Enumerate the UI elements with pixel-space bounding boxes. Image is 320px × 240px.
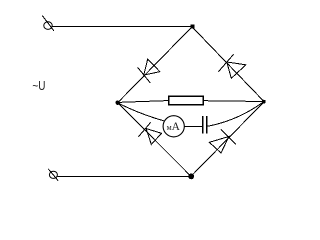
diode VD4 cathode bar [221, 130, 236, 145]
wire: milliammeter PA to capacitor C [185, 125, 202, 127]
capacitor C left plate [202, 116, 204, 134]
wire: node B to resistor R left lead [118, 101, 168, 103]
node C (right junction dot) [262, 100, 265, 103]
diode VD2 cathode bar [219, 54, 234, 71]
wire: capacitor C to node C (curved) [207, 102, 264, 127]
diode VD1 cathode bar [138, 67, 151, 83]
svg-text:мА: мА [167, 121, 181, 133]
node B (left junction dot) [116, 101, 119, 104]
wire bottom: terminal X2 to node D [57, 176, 191, 178]
wire: node B to milliammeter PA (curved) [118, 103, 164, 121]
terminal X2 slash [48, 169, 58, 181]
wire bridge arm A-C (top-right) [192, 27, 264, 102]
resistor R body [169, 96, 204, 105]
wire bridge arm A-B (top-left) [118, 27, 192, 103]
terminal X2 (bottom input clamp) [49, 171, 57, 178]
diode VD3 triangle [146, 129, 161, 145]
diode VD4 triangle [209, 137, 229, 154]
wire top: terminal X1 to node A [52, 26, 192, 28]
diode VD1 triangle [144, 59, 160, 75]
wire: resistor R right lead to node C [204, 100, 264, 103]
diode VD3 cathode bar [138, 122, 150, 137]
wire bridge arm B-D (bottom-left) [118, 103, 191, 177]
diode VD2 triangle [227, 62, 246, 78]
wire bridge arm D-C (bottom-right) [191, 102, 264, 177]
svg-text:~U: ~U [32, 79, 45, 93]
node D (bottom junction dot) [189, 174, 194, 179]
terminal X1 (top input clamp) [44, 22, 52, 30]
terminal X1 slash [42, 16, 54, 31]
milliammeter PA circle [163, 116, 184, 137]
capacitor C right plate [206, 116, 208, 134]
node A (top junction dot) [191, 25, 194, 28]
